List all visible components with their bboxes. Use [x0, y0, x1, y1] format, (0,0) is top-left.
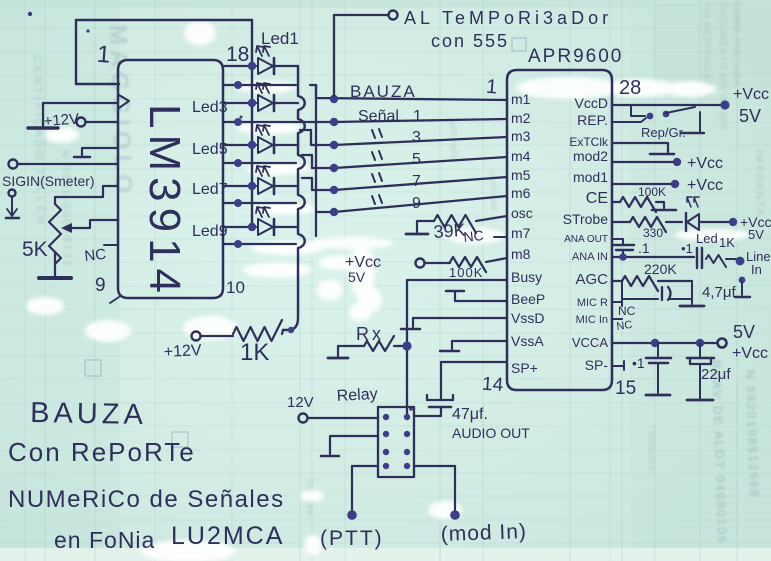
svg-text:Busy: Busy: [511, 269, 542, 285]
title LU2MCA: [171, 522, 284, 550]
svg-text:•1: •1: [632, 355, 645, 371]
wire pot top to IC: [55, 186, 118, 197]
pin label m8: [511, 246, 531, 262]
terminal SIG IN: [9, 160, 119, 169]
svg-text:en FoNia: en FoNia: [54, 527, 155, 553]
svg-text:1K: 1K: [719, 235, 735, 250]
svg-text:m1: m1: [511, 91, 531, 107]
svg-text:18: 18: [226, 43, 249, 66]
svg-text:Con RePoRTe: Con RePoRTe: [8, 437, 196, 467]
svg-text:osc: osc: [511, 205, 533, 221]
capacitor 4.7uf AGC: [622, 281, 704, 306]
wire VCCA to +Vcc: [612, 339, 727, 348]
wire Led3 cathode: [275, 102, 298, 104]
svg-text:1: 1: [413, 108, 422, 125]
pin 10 label: [226, 278, 245, 297]
label AUDIO OUT: [452, 425, 530, 441]
svg-text:AUDIO OUT: AUDIO OUT: [452, 425, 530, 441]
svg-text:4,7μf: 4,7μf: [702, 284, 736, 301]
label 330: [643, 226, 663, 240]
pin 9 label: [95, 275, 106, 296]
svg-text:100K: 100K: [638, 185, 666, 199]
label .1 ana out: [638, 240, 650, 256]
svg-text:5V: 5V: [348, 269, 366, 285]
pin terminal I: [735, 277, 750, 297]
svg-text:m3: m3: [511, 128, 531, 144]
label ditto 3: [372, 129, 421, 146]
svg-text:LU2MCA: LU2MCA: [171, 522, 284, 550]
title en FoNia: [54, 527, 155, 553]
wire mod1 +Vcc: [612, 180, 679, 188]
wire Busy: [407, 280, 507, 414]
svg-text:Led3: Led3: [192, 99, 228, 116]
label 39K: [433, 220, 466, 242]
svg-text:AGC: AGC: [575, 271, 608, 288]
pin label VssD: [511, 310, 544, 326]
label +Vcc 5V strobe: [740, 214, 771, 242]
wire LM3914 even pin y203: [223, 199, 296, 207]
label Rx: [356, 324, 384, 344]
svg-text:1K: 1K: [240, 339, 269, 366]
svg-text:12V: 12V: [287, 394, 314, 411]
pot wiper arrow: [61, 220, 118, 233]
wire LM3914 pin to Led9: [223, 223, 256, 231]
pin label m4: [511, 148, 531, 164]
svg-text:MIC In: MIC In: [576, 314, 608, 326]
label NC mic r: [618, 304, 636, 318]
wire ANA IN line: [612, 253, 694, 261]
capacitor .1 ana out: [612, 239, 634, 256]
wire senal m3: [300, 130, 507, 149]
svg-text:+12V: +12V: [163, 342, 202, 361]
IC U1 label LM3914: [140, 104, 189, 299]
svg-text:NUMeRiCo de Señales: NUMeRiCo de Señales: [8, 486, 285, 513]
wire LM3914 pin to Led5: [223, 141, 256, 149]
svg-text:ExTClk: ExTClk: [569, 135, 609, 149]
wire LM3914 pin to Led7: [223, 182, 256, 190]
label Led1: [261, 29, 299, 48]
stub relay left: [321, 436, 378, 456]
svg-text:SP-: SP-: [585, 357, 609, 373]
resistor 39K osc: [406, 215, 507, 234]
svg-text:NC: NC: [618, 304, 636, 318]
svg-text:NC: NC: [84, 246, 107, 265]
label +Vcc mod1: [687, 177, 723, 194]
wire ExtClk stub: [612, 143, 674, 154]
svg-text:m5: m5: [511, 167, 531, 183]
label +12V: [43, 111, 80, 130]
label +Vcc 5V top: [733, 86, 769, 126]
pin label SP-: [585, 357, 609, 373]
svg-text:VssD: VssD: [511, 310, 544, 326]
svg-text:In: In: [751, 262, 762, 277]
stub MIC R NC: [612, 298, 622, 306]
relay K1: [378, 407, 414, 477]
label Line In: [746, 249, 771, 277]
terminal AL temporizador: [334, 11, 398, 20]
svg-text:MIC R: MIC R: [577, 297, 608, 309]
pin label mod2: [573, 148, 608, 164]
pin 14 label: [481, 374, 504, 396]
resistor 100K m8: [425, 257, 507, 272]
label (mod In): [440, 520, 527, 546]
wire senal m5: [302, 177, 507, 194]
label Rep/Gr: [641, 125, 686, 140]
svg-text:cantidad: cantidad: [488, 170, 499, 212]
title NUMeRiCo de Senales: [8, 486, 285, 513]
label 47uf: [452, 406, 488, 423]
svg-text:1: 1: [485, 76, 498, 99]
label +Vcc mod2: [687, 155, 723, 172]
switch Rep/Gr: [612, 105, 704, 133]
wire pin1 top loop: [76, 20, 252, 84]
svg-text:VccD: VccD: [575, 95, 608, 111]
svg-text:STrobe: STrobe: [563, 211, 609, 227]
wire mod2 +Vcc: [612, 158, 681, 166]
svg-text:NC: NC: [463, 227, 485, 245]
svg-text:+Vcc: +Vcc: [687, 155, 723, 172]
svg-text:mod1: mod1: [573, 169, 608, 185]
wire senal m4: [302, 155, 507, 172]
pin label osc: [511, 205, 533, 221]
svg-text:Led7: Led7: [192, 181, 228, 198]
svg-text:m2: m2: [511, 110, 531, 126]
pin label VssA: [511, 333, 544, 349]
pin1 marker triangle: [119, 95, 129, 108]
wire PTT: [347, 466, 378, 520]
pin label VCCA: [572, 335, 608, 350]
svg-text:Led9: Led9: [192, 223, 228, 240]
svg-text:con 555: con 555: [431, 31, 509, 51]
terminal 12V: [299, 414, 379, 423]
svg-text:22μf: 22μf: [701, 366, 731, 383]
svg-text:5V: 5V: [739, 106, 761, 126]
bus B1 anodes: [251, 20, 253, 227]
pin 1 label LM3914: [96, 41, 111, 69]
label 12V: [287, 394, 314, 411]
stub Beep: [446, 291, 507, 301]
pin 28 label: [619, 77, 641, 99]
svg-text:Relay: Relay: [336, 386, 378, 405]
svg-text:Led5: Led5: [192, 141, 228, 158]
svg-text:REP.: REP.: [577, 112, 608, 128]
svg-text:5V: 5V: [748, 227, 764, 242]
svg-text:Toticios: Toticios: [645, 430, 657, 472]
terminal +Vcc m8: [416, 259, 425, 268]
label 1K: [240, 339, 269, 366]
pin label MIC In: [576, 314, 608, 326]
svg-text:14: 14: [481, 374, 504, 396]
label con 555: [431, 31, 509, 51]
svg-text:m8: m8: [511, 246, 531, 262]
svg-text:DOCUMENTO NO VALIDO: DOCUMENTO NO VALIDO: [718, 2, 728, 131]
wire LM3914 even pin y122: [223, 118, 296, 126]
pin label m7: [511, 225, 531, 241]
svg-text:•1: •1: [681, 241, 693, 256]
svg-text:CE: CE: [586, 190, 608, 207]
svg-text:5K: 5K: [22, 238, 48, 261]
ground pot: [39, 276, 71, 280]
label 5K: [22, 238, 48, 261]
label APR9600: [528, 46, 623, 67]
stub MIC In NC: [612, 318, 622, 320]
label NC m7: [463, 227, 485, 245]
svg-text:5: 5: [412, 151, 421, 168]
bus B2 cathode chain with hops: [283, 66, 305, 333]
wire SP+ to cap: [441, 362, 507, 398]
svg-text:LM3914: LM3914: [140, 104, 189, 299]
resistor 330 strobe: [612, 217, 682, 232]
label +12V bottom: [163, 342, 202, 361]
pin 1 label APR: [485, 76, 498, 99]
wire senal m2: [296, 118, 507, 126]
pin 15 label: [615, 378, 636, 399]
svg-text:+12V: +12V: [43, 111, 80, 130]
pin label ANA OUT: [564, 234, 608, 245]
pin label m6: [511, 185, 531, 201]
svg-text:3: 3: [412, 129, 421, 146]
svg-text:IMPRENTA: IMPRENTA: [753, 150, 765, 217]
capacitor 47uf audio out: [414, 395, 453, 416]
pin 18 label: [226, 43, 249, 66]
svg-text:330: 330: [643, 226, 663, 240]
svg-text:BAUZA: BAUZA: [30, 397, 147, 431]
label (PTT): [320, 527, 384, 550]
wire senal m6: [316, 196, 507, 216]
svg-text:1: 1: [96, 41, 111, 69]
pin label ANA IN: [572, 251, 608, 263]
resistor 100K CE: [612, 197, 676, 212]
label 220K: [644, 261, 677, 277]
label ditto 7: [372, 173, 421, 190]
svg-text:AL TeMPoRi3aDor: AL TeMPoRi3aDor: [404, 8, 612, 28]
svg-text:APR9600: APR9600: [528, 46, 623, 67]
bus B3: [315, 85, 317, 236]
stub VssA: [440, 341, 507, 351]
svg-text:7: 7: [412, 173, 421, 190]
resistor line in: [706, 255, 744, 267]
stub NC m7: [494, 236, 507, 238]
svg-text:Rx: Rx: [356, 324, 384, 344]
led Led7: [256, 166, 274, 194]
svg-text:SIGIN(Smeter): SIGIN(Smeter): [2, 173, 95, 189]
svg-text:28: 28: [619, 77, 641, 99]
pin label mod1: [573, 169, 608, 185]
wire senal m1 BAUZA: [310, 85, 507, 103]
svg-text:15: 15: [615, 378, 636, 399]
svg-text:+Vcc: +Vcc: [732, 345, 768, 362]
wire pin3: [43, 102, 118, 104]
IC U2 APR9600 body: [507, 70, 612, 390]
svg-text:VssA: VssA: [511, 333, 544, 349]
svg-text:ANA OUT: ANA OUT: [564, 234, 608, 245]
label .1 line in: [681, 241, 693, 256]
label Relay: [336, 386, 378, 405]
wire Led9 cathode: [275, 226, 298, 228]
pin label m5: [511, 167, 531, 183]
svg-text:100K: 100K: [449, 265, 483, 280]
svg-text:10: 10: [226, 278, 245, 297]
ground top-left: [28, 103, 58, 128]
pin label REP.: [577, 112, 608, 128]
wire LM3914 even pin y244: [223, 240, 296, 248]
title BAUZA: [30, 397, 147, 431]
label BAUZA wire: [350, 82, 417, 101]
svg-text:m6: m6: [511, 185, 531, 201]
label AL TeMPoRi3aDor: [404, 8, 612, 28]
label 100K CE: [638, 185, 666, 199]
svg-text:BeeP: BeeP: [511, 291, 545, 307]
label 4.7uf: [702, 284, 736, 301]
pin label AGC: [575, 271, 608, 288]
svg-text:9: 9: [412, 195, 421, 212]
pin label MIC R: [577, 297, 608, 309]
led strobe: [686, 197, 737, 231]
label +Vcc 5V m8: [345, 254, 381, 285]
svg-text:m7: m7: [511, 225, 531, 241]
IC U1 LM3914 body: [110, 60, 223, 303]
capacitor .1 line in: [697, 248, 702, 268]
svg-text:VCCA: VCCA: [572, 335, 608, 350]
wire Led5 cathode: [275, 144, 298, 146]
label Led 1K: [696, 231, 735, 250]
svg-text:NC: NC: [616, 319, 633, 333]
svg-text:.1: .1: [638, 240, 650, 256]
label 22uf: [701, 366, 731, 383]
label ditto 9: [372, 195, 421, 212]
led Led3: [256, 83, 274, 111]
svg-text:(PTT): (PTT): [320, 527, 384, 550]
label 5V +Vcc vcca: [732, 322, 768, 362]
pin label ExTClk: [569, 135, 609, 149]
svg-text:ANA IN: ANA IN: [572, 251, 608, 263]
label SIG IN (S meter): [2, 173, 95, 189]
jack ground: [6, 190, 19, 219]
resistor Rx: [338, 336, 412, 351]
svg-text:+Vcc: +Vcc: [687, 177, 723, 194]
capacitor 22uf: [687, 343, 714, 400]
wire Led1 cathode: [275, 65, 298, 67]
svg-text:220K: 220K: [644, 261, 677, 277]
svg-text:Led1: Led1: [261, 29, 299, 48]
svg-text:mod2: mod2: [573, 148, 608, 164]
led Led9: [256, 207, 274, 235]
pin label VccD: [575, 95, 608, 111]
svg-text:39K: 39K: [433, 220, 466, 242]
svg-text:5V: 5V: [733, 322, 755, 342]
terminal +12V bottom: [192, 332, 201, 341]
label Led9: [192, 223, 228, 240]
pin label m2: [511, 110, 531, 126]
wire temporizador drop: [333, 15, 335, 96]
wire LM3914 even pin y85: [223, 81, 296, 89]
svg-text:+Vcc: +Vcc: [733, 86, 769, 103]
wire Led7 cathode: [275, 185, 298, 187]
label Senal 1: [358, 108, 422, 125]
label Led3: [192, 99, 228, 116]
label NC mic in: [616, 319, 633, 333]
resistor 1K: [201, 320, 283, 341]
wire mod in: [414, 466, 460, 520]
resistor 220K AGC: [612, 276, 692, 291]
svg-text:(mod In): (mod In): [440, 520, 527, 546]
ink specks: [28, 12, 413, 411]
svg-text:SP+: SP+: [511, 360, 538, 376]
wire LM3914 pin to Led3: [223, 99, 256, 107]
label .1 vcca: [632, 355, 645, 371]
svg-text:Led: Led: [696, 231, 718, 246]
pin label BeeP: [511, 291, 545, 307]
label NC: [84, 245, 118, 265]
title Con RePoRTe: [8, 437, 196, 467]
svg-text:COMO FACTURA: COMO FACTURA: [732, 2, 742, 87]
stub pin left T: [74, 148, 118, 157]
stub VssD: [401, 318, 507, 329]
pin label CE: [586, 190, 608, 207]
ground Rx: [328, 346, 348, 358]
capacitor .1 vcca: [646, 343, 671, 395]
terminal +12V: [77, 118, 119, 127]
svg-text:m4: m4: [511, 148, 531, 164]
label ditto 5: [372, 151, 421, 168]
led Led1: [256, 46, 274, 74]
led Led5: [256, 125, 274, 153]
svg-text:47μf.: 47μf.: [452, 406, 488, 423]
svg-text:BAUZA: BAUZA: [350, 82, 417, 101]
label Led7: [192, 181, 228, 198]
stub SP-: [612, 361, 624, 370]
wire VccD to +Vcc: [612, 100, 730, 109]
pin label m1: [511, 91, 531, 107]
pin label SP+: [511, 360, 538, 376]
svg-text:Señal: Señal: [358, 108, 399, 125]
pin label STrobe: [563, 211, 609, 227]
pin label m3: [511, 128, 531, 144]
pin label Busy: [511, 269, 542, 285]
label Led5: [192, 141, 228, 158]
wire LM3914 even pin y163: [223, 159, 296, 167]
wire LM3914 pin to Led1: [223, 62, 256, 70]
svg-text:9: 9: [95, 275, 106, 296]
potentiometer 5K: [49, 197, 61, 276]
svg-text:Rep/Gr.: Rep/Gr.: [641, 125, 686, 140]
label 100K m8: [449, 265, 483, 280]
